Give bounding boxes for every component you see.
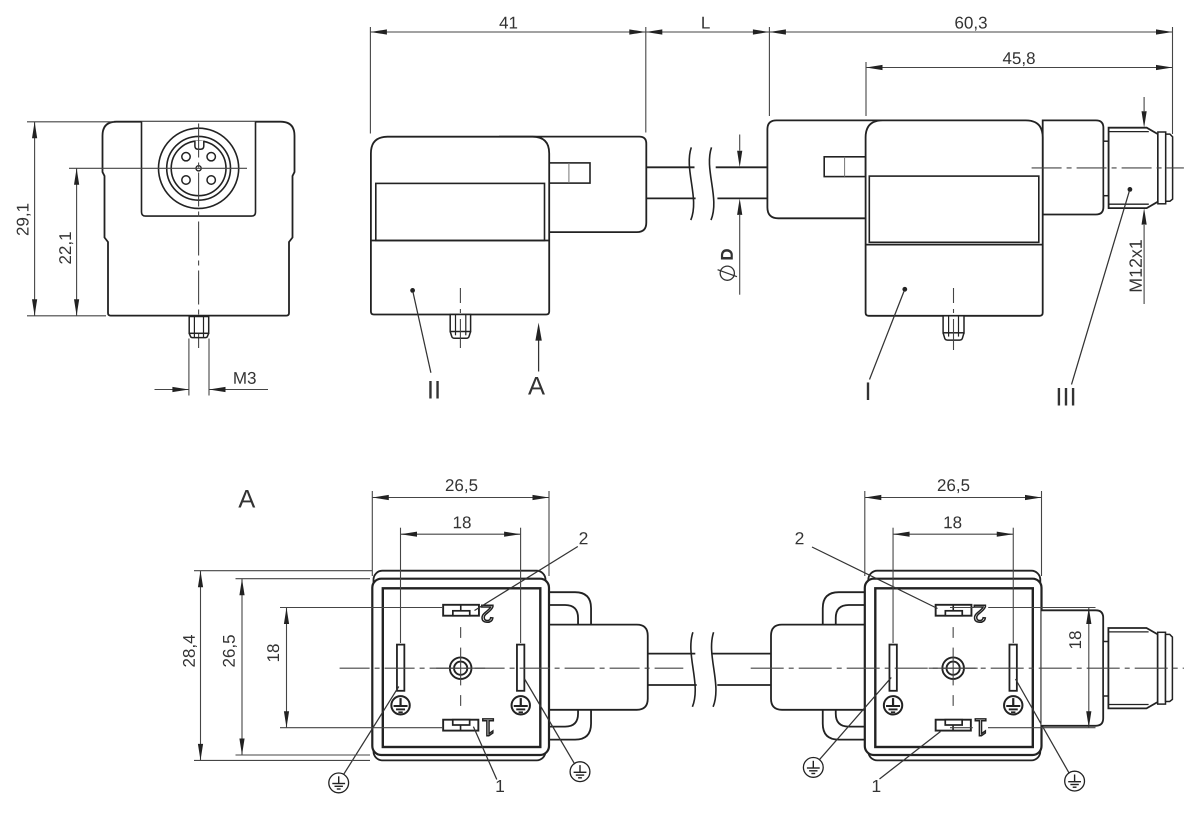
left contact slot xyxy=(397,645,404,691)
square centerline xyxy=(460,627,462,706)
right contact slot xyxy=(1009,645,1016,691)
PE ground screw right xyxy=(512,696,530,714)
connector I cable housing xyxy=(767,120,900,218)
M12 axis centerline xyxy=(1032,167,1184,169)
cable break top xyxy=(689,147,714,220)
connector II body xyxy=(371,137,549,315)
inner face square xyxy=(875,588,1033,747)
dimension 29,1 xyxy=(17,122,38,316)
earth symbol bottom-left of right square xyxy=(803,678,891,778)
dimension 26,5 vertical xyxy=(223,579,245,755)
connector II cable housing xyxy=(500,137,646,233)
housing back plate xyxy=(374,571,546,761)
connector II label band xyxy=(371,183,549,240)
earth symbol bottom-right of right square xyxy=(1016,679,1085,791)
connector II latch xyxy=(549,163,590,183)
leader pin1 right square xyxy=(873,732,941,793)
PE ground screw left xyxy=(884,696,902,714)
dimension 41 xyxy=(370,17,645,35)
view arrow A xyxy=(535,323,541,372)
connector square face xyxy=(372,579,549,755)
left view body outline xyxy=(103,122,295,316)
label A section xyxy=(238,490,255,508)
connector II M3 stud xyxy=(450,315,470,339)
strain relief rings xyxy=(528,592,591,739)
cable break bottom xyxy=(691,632,716,707)
M12 groove bottom xyxy=(1103,642,1108,697)
connector I latch xyxy=(824,157,865,177)
PE ground screw left xyxy=(391,696,409,714)
dimension 18 vertical left xyxy=(267,608,289,728)
M12 washer ring xyxy=(1158,132,1166,204)
earth symbol bottom-right of left square xyxy=(525,679,590,782)
label A top xyxy=(528,377,545,395)
pin 2 slot xyxy=(443,605,479,616)
connector square face xyxy=(865,579,1042,755)
connector I centerline xyxy=(953,288,955,350)
dimension 45,8 xyxy=(866,52,1173,70)
leader II xyxy=(410,288,431,373)
left view raised plate xyxy=(142,122,256,216)
M12 barrel xyxy=(1109,128,1158,208)
housing back plate xyxy=(868,571,1040,761)
key notch xyxy=(195,141,204,150)
cable bottom xyxy=(648,654,771,685)
dimension 26,5 right square xyxy=(865,479,1042,500)
connector I neck (drawn before body) xyxy=(1043,120,1104,214)
connector I body xyxy=(866,120,1043,315)
M12 groove xyxy=(1103,141,1108,196)
M3 dimension xyxy=(155,339,269,396)
label I xyxy=(867,382,869,400)
earth symbol bottom-left xyxy=(329,687,399,793)
square centerline xyxy=(952,627,954,706)
M12 tip disc xyxy=(1166,134,1173,201)
PE ground screw right xyxy=(1004,696,1022,714)
left contact slot xyxy=(889,645,896,691)
cable gland xyxy=(771,625,886,710)
pin 1 slot xyxy=(443,720,478,731)
cable top xyxy=(646,167,767,198)
M12 barrel bottom xyxy=(1108,628,1157,708)
pin 2 digit xyxy=(974,605,985,622)
leader pin2 right square xyxy=(796,532,938,608)
M12 socket face circles xyxy=(159,128,239,208)
pin 2 digit xyxy=(482,605,493,622)
dimension 60,3 xyxy=(769,17,1172,35)
extension lines top dims xyxy=(370,27,1172,134)
inner face square xyxy=(383,588,541,747)
dimension 18 left square xyxy=(401,516,521,536)
dimension M12x1 xyxy=(1129,97,1146,304)
center screw xyxy=(929,648,978,686)
dimension 26,5 left square xyxy=(372,479,549,500)
M12 tip disc bottom xyxy=(1166,634,1173,701)
M3 stud left view xyxy=(189,317,209,338)
label II xyxy=(429,381,438,399)
left view centerlines xyxy=(69,124,247,349)
leader III xyxy=(1072,187,1133,385)
strain relief rings xyxy=(823,592,886,739)
label III xyxy=(1058,388,1075,406)
pin 1 slot xyxy=(936,720,971,731)
pin 1 digit xyxy=(975,719,986,736)
socket pin holes xyxy=(182,153,190,161)
neck right square xyxy=(1042,610,1104,726)
dimension diameter D xyxy=(718,135,743,295)
dimension 22,1 xyxy=(59,168,79,315)
dimension 18 right square xyxy=(893,516,1013,536)
pin 2 slot xyxy=(936,605,972,616)
pin 1 digit xyxy=(483,719,494,736)
main axis centerline bottom row xyxy=(340,667,1184,669)
cable gland xyxy=(528,625,648,710)
M12 washer ring bottom xyxy=(1158,632,1166,704)
dimension 18 right side xyxy=(1069,608,1091,728)
leader pin2 left square xyxy=(475,532,588,610)
dimension L xyxy=(646,17,770,35)
center screw xyxy=(436,648,485,686)
leader I xyxy=(870,287,908,380)
connector II centerline xyxy=(459,288,461,348)
right contact slot xyxy=(517,645,524,691)
left view extension lines xyxy=(27,122,114,316)
connector I label band xyxy=(866,176,1043,245)
leader pin1 left square xyxy=(473,727,504,792)
dimension 28,4 xyxy=(183,571,203,761)
connector I M3 stud xyxy=(943,316,964,340)
